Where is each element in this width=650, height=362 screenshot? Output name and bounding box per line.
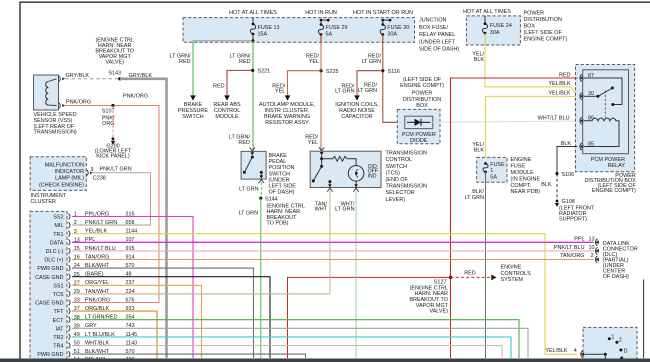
svg-text:(END OF: (END OF xyxy=(386,177,409,183)
cluster pin 50 WHT/BLK 1143 (TR4) xyxy=(53,340,137,349)
wire YEL/BLK 1144 xyxy=(72,234,578,355)
diode D1 PCM power diode xyxy=(405,116,433,128)
svg-text:SS1: SS1 xyxy=(53,283,63,289)
svg-text:GRY/BLK: GRY/BLK xyxy=(66,73,90,79)
svg-text:S106: S106 xyxy=(562,172,575,178)
cluster pin 1 PPL/ORG 315 (SS2) xyxy=(53,211,134,220)
svg-text:CAPACITOR: CAPACITOR xyxy=(341,114,372,120)
svg-text:MODULE: MODULE xyxy=(511,170,535,176)
svg-text:ECT: ECT xyxy=(53,318,65,324)
node S116 xyxy=(381,69,400,75)
svg-text:LT GRN: LT GRN xyxy=(335,89,355,95)
malfunction indicator lamp box xyxy=(30,157,86,191)
svg-text:ENGINE COMPT): ENGINE COMPT) xyxy=(400,83,444,89)
svg-text:PNK/ORG: PNK/ORG xyxy=(66,100,91,106)
svg-text:S144: S144 xyxy=(265,196,278,202)
svg-text:POWER: POWER xyxy=(524,11,545,17)
svg-text:TFT: TFT xyxy=(54,309,65,315)
svg-text:HOT IN START OR RUN: HOT IN START OR RUN xyxy=(353,10,413,16)
svg-text:LT GRN: LT GRN xyxy=(239,210,259,216)
svg-text:TRANSMISSION: TRANSMISSION xyxy=(386,184,427,190)
svg-text:4: 4 xyxy=(574,348,577,354)
relay K1 inner box xyxy=(583,70,629,154)
svg-text:TO PDB): TO PDB) xyxy=(267,221,289,227)
wire BLK/WHT 570 xyxy=(72,354,306,358)
wire LT GRN dashed to S144 xyxy=(239,182,261,197)
svg-text:BOX FUSE/: BOX FUSE/ xyxy=(419,25,448,31)
svg-text:BOX: BOX xyxy=(416,103,428,109)
svg-text:IAT: IAT xyxy=(55,326,64,332)
relay coil xyxy=(584,118,619,146)
DLC pin 10 connector xyxy=(595,247,599,254)
svg-text:TR2: TR2 xyxy=(53,335,63,341)
svg-text:YEL/BLK: YEL/BLK xyxy=(548,81,570,87)
svg-text:LEFT SIDE: LEFT SIDE xyxy=(269,184,297,190)
wire LT GRN S144 down to engine harness xyxy=(239,198,261,358)
fuse F1 5A xyxy=(483,162,505,182)
fuse F29 5A xyxy=(318,19,347,43)
svg-text:PWR GND: PWR GND xyxy=(37,352,63,358)
svg-text:SWITCH: SWITCH xyxy=(386,164,408,170)
relay pin 85 xyxy=(579,141,594,150)
svg-text:MODULE: MODULE xyxy=(215,114,239,120)
svg-text:LT GRN: LT GRN xyxy=(239,186,259,192)
svg-text:ENGINE COMPT): ENGINE COMPT) xyxy=(524,37,568,43)
svg-text:RED: RED xyxy=(179,59,191,65)
wire LT GRN/RED fuse13 to S221 xyxy=(229,41,253,152)
svg-text:ENGINE: ENGINE xyxy=(511,157,532,163)
node S143 xyxy=(108,71,121,81)
cluster pin 54 PPL/YEL (cut off) xyxy=(68,357,134,362)
ground G108 xyxy=(555,199,595,222)
svg-text:BLK: BLK xyxy=(474,148,485,154)
data link connector labels xyxy=(554,236,638,280)
engine fuse module box xyxy=(477,157,541,195)
svg-text:RESISTOR ASSY: RESISTOR ASSY xyxy=(265,120,309,126)
svg-text:RED: RED xyxy=(464,271,476,277)
svg-text:YEL/BLK: YEL/BLK xyxy=(548,91,570,97)
svg-text:POSITION: POSITION xyxy=(269,165,295,171)
svg-text:RED: RED xyxy=(239,59,251,65)
wire LT GRN/RED 354 xyxy=(72,320,519,358)
cluster pin 15 PNK/LT BLU 915 (DLC (-)) xyxy=(46,246,135,255)
svg-text:CONTROLS: CONTROLS xyxy=(501,271,532,277)
svg-text:TR4: TR4 xyxy=(53,344,63,350)
cluster pin 2 PNK/LT GRN 658 (MIL) xyxy=(54,220,134,229)
svg-text:MALFUNCTION: MALFUNCTION xyxy=(45,162,84,168)
svg-text:COMPT.: COMPT. xyxy=(511,183,532,189)
instrument cluster connector box xyxy=(30,211,67,362)
svg-text:BOX: BOX xyxy=(524,24,536,30)
wire WHT/LT GRN TCS down xyxy=(335,191,356,358)
cluster pin 3 YEL/BLK 1144 (TR1) xyxy=(53,229,137,238)
rear ABS control module label xyxy=(213,102,241,120)
svg-text:WHT: WHT xyxy=(315,206,328,212)
wire YEL/BLK relay pin 30 to engine fuse module xyxy=(472,91,577,164)
wire GRY 743 xyxy=(72,328,528,358)
wire PNK/LT GRN 658 xyxy=(72,224,151,226)
svg-text:S116: S116 xyxy=(388,69,400,75)
relay pin 30 xyxy=(579,91,594,100)
svg-text:SWITCH: SWITCH xyxy=(269,171,291,177)
instrument cluster label xyxy=(31,193,67,205)
DLC pin 2 connector xyxy=(595,256,599,263)
wire GRY/BLK dashed VSS to S143 xyxy=(65,73,118,79)
svg-text:CASE GND: CASE GND xyxy=(35,275,63,281)
svg-text:TCS: TCS xyxy=(53,292,64,298)
YEL/BLK pin 4 into DLC partial xyxy=(545,348,606,359)
svg-text:(CHECK ENGINE): (CHECK ENGINE) xyxy=(39,182,84,188)
cluster pin 24 BLK/WHT 570 (PWR GND) xyxy=(37,263,134,272)
ground G200 xyxy=(95,137,132,159)
svg-text:DISTRIBUTION: DISTRIBUTION xyxy=(524,17,562,23)
wire RED/LT GRN branch to ignition coils xyxy=(335,71,383,101)
wire RED relay 87 to S127 and engine controls xyxy=(451,72,578,358)
ignition coils label xyxy=(335,102,379,120)
svg-text:BLK: BLK xyxy=(541,182,552,188)
svg-text:INDICATOR: INDICATOR xyxy=(55,169,84,175)
svg-text:(IN ENGINE: (IN ENGINE xyxy=(511,176,541,182)
engine controls system label xyxy=(501,265,532,283)
svg-text:PPL: PPL xyxy=(574,236,584,242)
svg-text:LT GRN: LT GRN xyxy=(465,195,485,201)
brake pressure switch label xyxy=(178,102,208,120)
node S144 xyxy=(259,196,305,226)
svg-text:TR1: TR1 xyxy=(53,232,63,238)
svg-text:DATA: DATA xyxy=(50,240,64,246)
svg-text:1: 1 xyxy=(490,168,493,174)
svg-text:S143: S143 xyxy=(108,71,121,77)
wire BLK dashed S106 to G108 xyxy=(541,174,557,200)
DLC partial pins 1 2 D xyxy=(608,335,628,360)
DLC partial connector box (bottom right) xyxy=(583,327,637,361)
wire LT BLU/BLK 1145 xyxy=(72,337,511,358)
node S106 xyxy=(555,172,574,178)
svg-text:13: 13 xyxy=(589,236,595,242)
svg-text:SIDE OF DASH): SIDE OF DASH) xyxy=(419,47,459,53)
svg-text:LEVER): LEVER) xyxy=(386,197,406,203)
svg-text:TRANSMISSION: TRANSMISSION xyxy=(386,151,427,157)
svg-text:PNK/LT BLU: PNK/LT BLU xyxy=(554,245,585,251)
svg-text:LAMP (MIL): LAMP (MIL) xyxy=(55,176,84,182)
svg-text:FUSE 30: FUSE 30 xyxy=(387,25,409,31)
PCM module edge (bottom band) xyxy=(0,359,650,362)
svg-text:ENGINE: ENGINE xyxy=(501,265,522,271)
svg-text:DIODE: DIODE xyxy=(410,138,428,144)
node S225 xyxy=(319,69,338,75)
relay pin 87 xyxy=(579,73,594,82)
wire RED/LT GRN fuse30 to S116 to PCM power diode xyxy=(358,42,405,122)
S143 harness note xyxy=(95,38,134,66)
wire BLK/WHT 570 xyxy=(72,268,254,358)
svg-text:POWER: POWER xyxy=(412,91,433,97)
svg-text:RED: RED xyxy=(238,140,250,146)
wire TAN/WHT TCS to cluster row xyxy=(315,191,330,294)
cluster pin 49 LT BLU/BLK 1145 (TR2) xyxy=(53,332,137,341)
svg-text:MIL: MIL xyxy=(54,223,63,229)
svg-text:YEL: YEL xyxy=(275,89,285,95)
svg-text:(UNDER LEFT: (UNDER LEFT xyxy=(419,39,456,45)
wire BLK relay 85 to S106 xyxy=(557,141,577,174)
cluster pin 33 PNK/ORG 676 (CASE GND) xyxy=(35,297,134,306)
wire WHT/LT BLU diode to relay pin 86 xyxy=(433,115,578,122)
power distribution box (fuse 24) xyxy=(463,9,567,45)
svg-text:TRANSMISSION): TRANSMISSION) xyxy=(34,130,77,136)
svg-text:CLUSTER: CLUSTER xyxy=(31,199,56,205)
wire RED/YEL fuse29 to S225 and TCS xyxy=(305,42,321,151)
brake pedal switch internals xyxy=(243,147,264,183)
node S221 xyxy=(251,69,270,75)
svg-text:SELECTOR: SELECTOR xyxy=(386,190,415,196)
svg-text:IND: IND xyxy=(368,174,377,180)
wire (BARE) 48 xyxy=(72,277,270,358)
wire TAN/WHT 224 xyxy=(72,293,330,295)
svg-text:LT GRN: LT GRN xyxy=(358,88,378,94)
svg-text:30A: 30A xyxy=(387,31,397,37)
svg-text:15A: 15A xyxy=(258,31,268,37)
svg-text:(LEFT SIDE OF: (LEFT SIDE OF xyxy=(524,30,563,36)
svg-text:LT GRN: LT GRN xyxy=(362,59,382,65)
svg-text:SWITCH: SWITCH xyxy=(182,114,204,120)
svg-text:HOT AT ALL TIMES: HOT AT ALL TIMES xyxy=(463,9,511,15)
svg-text:PWR GND: PWR GND xyxy=(37,266,63,272)
svg-text:BRAKE: BRAKE xyxy=(269,153,288,159)
svg-text:CASE GND: CASE GND xyxy=(35,301,63,307)
svg-text:HOT AT ALL TIMES: HOT AT ALL TIMES xyxy=(229,10,277,16)
svg-text:RED: RED xyxy=(559,72,571,78)
svg-text:30A: 30A xyxy=(490,30,500,36)
node S127 xyxy=(409,276,452,315)
svg-text:ENGINE COMPT): ENGINE COMPT) xyxy=(592,188,636,194)
fuse F13 15A xyxy=(250,18,279,41)
svg-text:2: 2 xyxy=(591,253,594,259)
PCM power relay outer box xyxy=(576,65,637,195)
relay contact circuit xyxy=(584,78,622,118)
wire ORG/YEL 237 xyxy=(72,285,202,358)
svg-text:INSTRUMENT: INSTRUMENT xyxy=(31,193,67,199)
svg-text:10: 10 xyxy=(589,245,595,251)
svg-text:(UNDER: (UNDER xyxy=(269,177,290,183)
wire WHT/BLK 1143 xyxy=(72,346,502,359)
svg-text:OF DASH): OF DASH) xyxy=(603,274,629,280)
svg-text:DISTRIBUTION: DISTRIBUTION xyxy=(403,97,441,103)
cluster pin 29 TAN/WHT 224 (TCS) xyxy=(53,289,135,298)
svg-text:HOT IN RUN: HOT IN RUN xyxy=(305,10,337,16)
svg-text:2: 2 xyxy=(619,337,622,343)
svg-text:D: D xyxy=(624,348,628,354)
VSS coil xyxy=(46,79,57,106)
svg-text:YEL: YEL xyxy=(309,59,319,65)
wire ORG/BLK 923 xyxy=(72,311,157,358)
svg-text:SS2: SS2 xyxy=(53,215,63,221)
svg-text:PNK/LT GRN: PNK/LT GRN xyxy=(100,167,132,173)
svg-text:VALVE): VALVE) xyxy=(105,60,124,66)
fuse F30 30A xyxy=(380,19,409,43)
svg-text:SYSTEM: SYSTEM xyxy=(501,277,524,283)
svg-text:FUSE: FUSE xyxy=(490,162,505,168)
VSS pin PNK/ORG xyxy=(59,103,66,109)
wire TAN/ORG 914 xyxy=(72,259,594,261)
svg-text:PEDAL: PEDAL xyxy=(269,159,287,165)
svg-text:1: 1 xyxy=(611,335,614,341)
MIL pin 9 / C238 xyxy=(87,167,106,182)
svg-text:RELAY PANEL: RELAY PANEL xyxy=(419,32,455,38)
svg-text:S221: S221 xyxy=(258,69,271,75)
relay pin 86 xyxy=(579,116,594,125)
svg-text:SUPPORT): SUPPORT) xyxy=(559,216,587,222)
brake pedal position switch box xyxy=(241,151,296,195)
DLC pin 13 connector xyxy=(595,239,599,246)
wire junction-box internal link to fuse 13 xyxy=(193,39,254,42)
cluster pin 51 BLK/WHT 570 (PWR GND) xyxy=(37,349,134,358)
svg-text:VALVE): VALVE) xyxy=(429,309,448,315)
VSS pin GRY/BLK xyxy=(59,76,66,82)
wire RED S127 dashed to engine controls system xyxy=(451,271,497,281)
wire RED corner at lower left of S127 run xyxy=(288,277,451,358)
transmission control switch box xyxy=(310,151,427,203)
fuse F24 30A xyxy=(482,16,511,45)
svg-text:FUSE: FUSE xyxy=(511,164,526,170)
cluster pin 13 PPL 107 (DATA) xyxy=(50,237,135,246)
wire BLK/LT GRN fuse1 down xyxy=(465,182,486,358)
wire RED/YEL branch to autolamp module xyxy=(272,71,321,101)
svg-text:DLC (-): DLC (-) xyxy=(46,249,64,255)
TCS internals: switch, resistor, O/D OFF lamp xyxy=(312,147,378,192)
svg-text:RED: RED xyxy=(213,83,225,89)
svg-text:CONTROL: CONTROL xyxy=(386,157,413,163)
wire BLK unknown right edge xyxy=(643,279,645,358)
wire PNK/LT BLU 915 xyxy=(72,250,594,252)
node S107 xyxy=(102,104,115,127)
svg-text:5A: 5A xyxy=(326,31,333,37)
svg-text:OF DASH): OF DASH) xyxy=(269,190,295,196)
svg-text:GRY/BLK: GRY/BLK xyxy=(129,73,153,79)
svg-text:FUSE 13: FUSE 13 xyxy=(258,25,280,31)
wire PNK/LT GRN MIL to cluster row 2 xyxy=(93,167,151,226)
svg-text:YEL: YEL xyxy=(308,140,318,146)
power distribution box (diode) xyxy=(397,77,444,144)
svg-text:FUSE 29: FUSE 29 xyxy=(326,25,348,31)
junction box fuse/relay panel xyxy=(183,10,459,53)
cluster pin 37 ORG/BLK 923 (TFT) xyxy=(54,306,135,315)
svg-text:S225: S225 xyxy=(326,69,339,75)
wire PNK/ORG 676 xyxy=(72,302,159,304)
wire PPL/ORG 315 xyxy=(72,217,193,359)
wire YEL/BLK fuse24 to relay pin 30 xyxy=(472,45,577,96)
svg-text:DLC (+): DLC (+) xyxy=(44,258,63,264)
svg-text:(TCS): (TCS) xyxy=(386,170,401,176)
wire GRY/BLK thick shield S143 down left side xyxy=(120,73,167,358)
vehicle speed sensor box xyxy=(34,75,77,136)
cluster pin 38 LT GRN/RED 354 (ECT) xyxy=(53,315,135,324)
svg-text:KICK PANEL): KICK PANEL) xyxy=(96,154,130,160)
wire LT GRN/RED left branch to brake pressure switch xyxy=(170,41,196,101)
svg-text:TAN/ORG: TAN/ORG xyxy=(560,253,584,259)
svg-text:BLK: BLK xyxy=(474,57,485,63)
svg-text:BLK: BLK xyxy=(561,141,572,147)
svg-text:9: 9 xyxy=(91,167,94,173)
svg-text:NEAR PDB): NEAR PDB) xyxy=(511,189,541,195)
wire RED to rear ABS control module xyxy=(213,70,253,100)
svg-text:WHT/LT BLU: WHT/LT BLU xyxy=(538,115,570,121)
cluster pin 25 (BARE) 48 (CASE GND) xyxy=(35,272,131,281)
cluster pin 39 GRY 743 (IAT) xyxy=(55,323,134,332)
cluster pin 16 TAN/ORG 914 (DLC (+)) xyxy=(44,254,134,263)
svg-text:LT GRN: LT GRN xyxy=(335,206,355,212)
autolamp module label xyxy=(259,102,315,126)
svg-text:C238: C238 xyxy=(93,176,106,182)
wire PNK/ORG dashed S107 to G200 xyxy=(112,106,114,138)
svg-text:YEL/BLK: YEL/BLK xyxy=(545,348,567,354)
wire PPL 107 xyxy=(72,241,594,243)
svg-text:JUNCTION: JUNCTION xyxy=(419,18,447,24)
svg-text:5A: 5A xyxy=(490,174,497,180)
wire PNK/ORG VSS to S107 to cluster pin 33 xyxy=(65,94,159,303)
svg-text:RELAY: RELAY xyxy=(608,163,626,169)
svg-text:PNK/ORG: PNK/ORG xyxy=(123,94,148,100)
svg-text:FUSE 24: FUSE 24 xyxy=(490,23,512,29)
cluster pin 27 ORG/YEL 237 (SS1) xyxy=(53,280,134,289)
svg-text:G108: G108 xyxy=(562,199,575,205)
